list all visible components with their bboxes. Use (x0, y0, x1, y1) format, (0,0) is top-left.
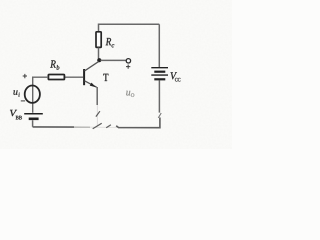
source ui (25, 86, 40, 103)
wire bottom rail right dark (116, 118, 160, 128)
node collector junction (97, 58, 101, 62)
transistor T (84, 62, 99, 88)
wire bottom rail left dark (33, 126, 74, 128)
wire base (65, 76, 83, 78)
wire right branch break slash (158, 113, 161, 118)
battery VCC (151, 68, 168, 80)
resistor Rb (48, 75, 64, 80)
wire Rb left lead (33, 77, 49, 113)
wire emitter vertical dark (96, 87, 98, 105)
label Rb (50, 60, 56, 67)
wire right branch lower (158, 81, 160, 113)
label T (103, 74, 108, 81)
label VCC (171, 72, 177, 79)
wire bottom rail slash 2 (106, 125, 111, 128)
label - source (21, 100, 25, 102)
label uo (126, 91, 130, 96)
output terminal (126, 59, 130, 63)
wire top rail (99, 24, 160, 32)
wire bottom rail faint middle (74, 126, 90, 128)
label Rc (106, 38, 112, 45)
wire bottom rail slash 1 (93, 123, 102, 129)
resistor Rc (96, 32, 101, 48)
battery VBB (24, 114, 43, 119)
wire emitter vertical faint (96, 105, 98, 126)
wire node to output terminal (101, 59, 127, 61)
wire right branch upper (158, 24, 160, 67)
wire Rc to node (98, 48, 100, 60)
label + source (23, 74, 27, 78)
wire emitter break slash (96, 111, 100, 116)
wire battery to bottom rail (32, 120, 34, 127)
label ui (13, 90, 17, 94)
label VBB (10, 110, 17, 116)
label + output (126, 65, 130, 69)
